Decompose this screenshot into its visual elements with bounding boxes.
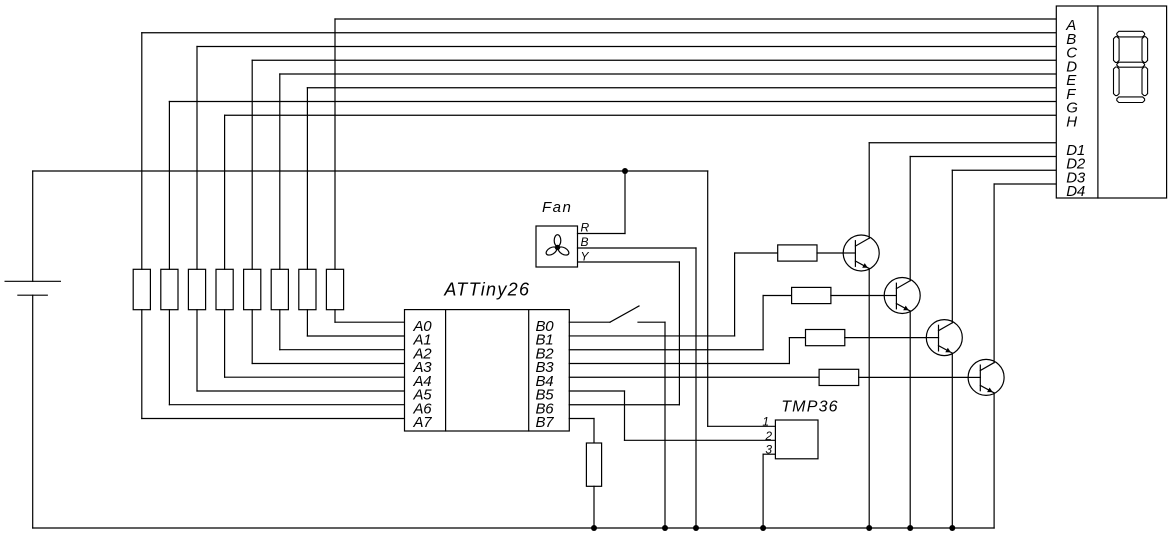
svg-text:D4: D4 [1066,183,1085,200]
svg-text:3: 3 [765,443,772,457]
svg-text:A7: A7 [413,414,433,431]
svg-text:B: B [581,235,589,249]
svg-text:Fan: Fan [542,199,572,216]
svg-text:2: 2 [764,429,772,443]
svg-text:R: R [581,221,590,235]
svg-text:1: 1 [762,414,769,428]
svg-text:Y: Y [581,250,590,264]
svg-text:B7: B7 [536,414,555,431]
svg-text:H: H [1066,113,1077,130]
svg-text:TMP36: TMP36 [781,399,839,416]
svg-text:ATTiny26: ATTiny26 [443,280,530,300]
